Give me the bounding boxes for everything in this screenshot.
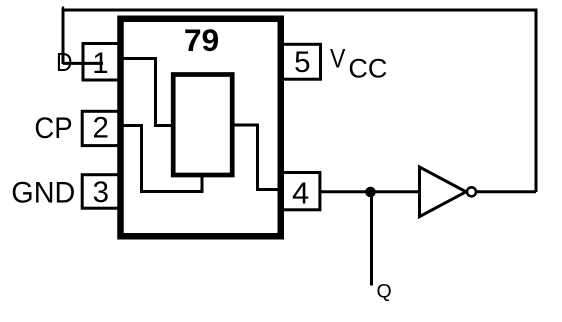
svg-text:79: 79 [184,22,219,58]
svg-text:5: 5 [294,46,310,79]
svg-text:1: 1 [92,47,108,80]
svg-text:V: V [330,45,346,74]
svg-text:3: 3 [93,176,109,209]
svg-text:D: D [56,49,73,78]
svg-text:GND: GND [11,176,75,210]
svg-text:CC: CC [348,54,387,84]
svg-text:4: 4 [292,176,309,211]
svg-text:CP: CP [34,112,72,145]
svg-text:2: 2 [92,112,108,145]
svg-text:Q: Q [377,280,392,302]
